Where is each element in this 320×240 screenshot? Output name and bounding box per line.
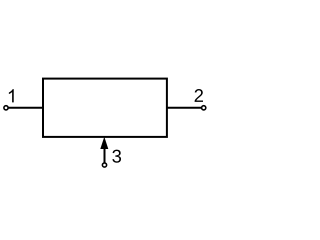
wire: pin 1 to body [8, 107, 43, 109]
pin number 1 [9, 89, 14, 102]
pin number 2 [195, 89, 203, 102]
terminal 2 pin circle [202, 106, 206, 110]
potentiometer body [43, 79, 167, 137]
terminal 3 pin circle [102, 163, 106, 167]
pin number 3 [112, 150, 121, 163]
wire: body to pin 2 [167, 107, 202, 109]
terminal 1 pin circle [4, 106, 8, 110]
wiper arrow (terminal 3) [100, 137, 108, 163]
